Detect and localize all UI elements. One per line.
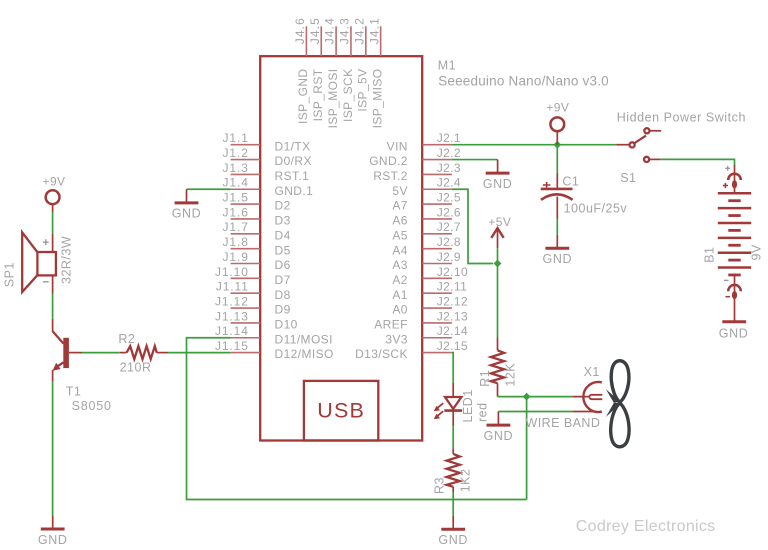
junction node R1/fan/D11 net bbox=[523, 393, 531, 401]
svg-text:C1: C1 bbox=[562, 175, 579, 189]
pin J1.6 (D3) bbox=[223, 205, 291, 227]
battery B1 9V bbox=[703, 165, 764, 321]
svg-text:J1.14: J1.14 bbox=[215, 324, 249, 338]
wire C1 to ground bbox=[556, 219, 558, 235]
svg-text:Hidden Power Switch: Hidden Power Switch bbox=[617, 111, 746, 125]
svg-text:RST.2: RST.2 bbox=[373, 169, 408, 183]
wire VIN J2.1 to switch S1 bbox=[452, 144, 616, 146]
svg-text:J2.3: J2.3 bbox=[437, 161, 461, 175]
svg-text:ISP_RST: ISP_RST bbox=[311, 68, 325, 121]
pin J4.2 (ISP_5V) bbox=[352, 17, 369, 111]
svg-text:+5V: +5V bbox=[488, 215, 511, 229]
svg-text:GND: GND bbox=[719, 326, 749, 340]
ground at GND.1 bbox=[186, 189, 188, 203]
pin J1.11 (D8) bbox=[216, 280, 291, 302]
junction node VIN/+9V/C1 bbox=[553, 141, 561, 149]
svg-text:ISP_GND: ISP_GND bbox=[296, 69, 310, 124]
pin J2.6 (A6) bbox=[392, 205, 461, 227]
svg-text:A6: A6 bbox=[392, 214, 407, 228]
svg-text:J2.8: J2.8 bbox=[437, 235, 461, 249]
IC M1 Seeeduino Nano/Nano v3.0 body bbox=[260, 56, 422, 440]
svg-text:32R/3W: 32R/3W bbox=[59, 236, 73, 284]
pin J1.7 (D4) bbox=[223, 220, 291, 242]
wire pin J1.4 GND.1 to ground bbox=[187, 188, 231, 190]
svg-text:B1: B1 bbox=[703, 247, 717, 263]
pin J2.15 (D13/SCK) bbox=[355, 339, 468, 361]
svg-text:9V: 9V bbox=[750, 244, 764, 260]
ground below battery B1 bbox=[719, 322, 749, 341]
pin J1.12 (D9) bbox=[215, 294, 291, 316]
pin J2.7 (A5) bbox=[392, 220, 461, 242]
svg-text:D1/TX: D1/TX bbox=[275, 139, 311, 153]
USB connector box bbox=[304, 381, 378, 441]
resistor R1 12K bbox=[478, 337, 518, 396]
svg-text:J1.11: J1.11 bbox=[216, 280, 249, 294]
svg-text:J2.4: J2.4 bbox=[437, 176, 461, 190]
svg-text:X1: X1 bbox=[584, 365, 600, 379]
pin J4.5 (ISP_RST) bbox=[308, 17, 325, 121]
wire pin J2.2 GND.2 to ground bbox=[452, 159, 498, 161]
power +9V supply symbol (left) bbox=[43, 174, 66, 212]
svg-text:S1: S1 bbox=[620, 171, 636, 185]
svg-text:J1.8: J1.8 bbox=[223, 235, 249, 249]
svg-text:A1: A1 bbox=[392, 288, 407, 302]
svg-text:GND: GND bbox=[438, 533, 468, 547]
transistor T1 S8050 bbox=[52, 319, 111, 413]
pin J1.2 (D0/RX) bbox=[223, 146, 312, 168]
pin J2.9 (A3) bbox=[392, 250, 461, 272]
svg-text:GND: GND bbox=[172, 207, 202, 221]
power +5V supply symbol bbox=[488, 215, 511, 248]
pin J1.5 (D2) bbox=[223, 191, 291, 213]
wire T1 emitter to ground bbox=[52, 381, 54, 515]
svg-text:J1.5: J1.5 bbox=[223, 191, 249, 205]
svg-text:J4.2: J4.2 bbox=[352, 17, 366, 44]
pin J1.15 (D12/MISO) bbox=[215, 339, 334, 361]
pin J2.1 (VIN) bbox=[387, 131, 461, 153]
svg-text:Seeeduino Nano/Nano v3.0: Seeeduino Nano/Nano v3.0 bbox=[438, 73, 609, 88]
pin J2.3 (RST.2) bbox=[373, 161, 461, 183]
ground below C1 bbox=[556, 235, 558, 249]
svg-text:J1.9: J1.9 bbox=[223, 250, 249, 264]
pin J2.2 (GND.2) bbox=[369, 146, 461, 168]
svg-text:J4.4: J4.4 bbox=[323, 17, 337, 44]
svg-text:100uF/25v: 100uF/25v bbox=[564, 202, 628, 216]
svg-text:J1.7: J1.7 bbox=[223, 220, 249, 234]
svg-text:D2: D2 bbox=[275, 199, 291, 213]
svg-text:J1.13: J1.13 bbox=[215, 309, 249, 323]
wire LED1 to resistor R3 bbox=[452, 426, 454, 448]
pin J1.9 (D6) bbox=[223, 250, 291, 272]
svg-text:3V3: 3V3 bbox=[385, 332, 408, 346]
svg-text:D9: D9 bbox=[275, 303, 291, 317]
svg-text:D11/MOSI: D11/MOSI bbox=[275, 332, 333, 346]
pin J4.6 (ISP_GND) bbox=[293, 17, 310, 124]
pin J1.14 (D11/MOSI) bbox=[215, 324, 333, 346]
pin J2.10 (A2) bbox=[392, 265, 468, 287]
svg-text:M1: M1 bbox=[438, 59, 456, 73]
wire fan lower pin to ground bbox=[498, 411, 572, 413]
svg-text:ISP_MOSI: ISP_MOSI bbox=[326, 69, 340, 129]
svg-text:J2.9: J2.9 bbox=[437, 250, 461, 264]
pin J2.5 (A7) bbox=[392, 191, 461, 213]
svg-text:J2.6: J2.6 bbox=[437, 205, 461, 219]
svg-text:J4.3: J4.3 bbox=[338, 17, 352, 44]
svg-text:D13/SCK: D13/SCK bbox=[355, 347, 408, 361]
svg-text:+9V: +9V bbox=[546, 100, 569, 114]
wire pin J1.14 D11/MOSI down and right (net to fan node) bbox=[187, 338, 527, 500]
svg-text:1K2: 1K2 bbox=[458, 469, 472, 493]
svg-text:J2.1: J2.1 bbox=[437, 131, 461, 145]
svg-text:J1.4: J1.4 bbox=[223, 176, 249, 190]
svg-text:GND.1: GND.1 bbox=[275, 184, 314, 198]
pin J1.4 (GND.1) bbox=[223, 176, 314, 198]
pin J4.3 (ISP_SCK) bbox=[338, 17, 355, 122]
svg-text:ISP_5V: ISP_5V bbox=[356, 69, 370, 112]
ground at GND.2 bbox=[497, 160, 499, 174]
svg-text:J2.15: J2.15 bbox=[437, 339, 468, 353]
pin J1.13 (D10) bbox=[215, 309, 298, 331]
wire R3 to ground bbox=[452, 493, 454, 516]
svg-text:GND: GND bbox=[38, 533, 68, 547]
svg-text:D12/MISO: D12/MISO bbox=[275, 347, 334, 361]
svg-text:D5: D5 bbox=[275, 243, 291, 257]
svg-text:J2.5: J2.5 bbox=[437, 191, 461, 205]
svg-text:GND: GND bbox=[484, 429, 514, 443]
svg-text:WIRE BAND: WIRE BAND bbox=[526, 416, 601, 430]
svg-text:J1.2: J1.2 bbox=[223, 146, 249, 160]
svg-text:D3: D3 bbox=[275, 214, 291, 228]
ground below R3 bbox=[452, 516, 454, 530]
pin J1.8 (D5) bbox=[223, 235, 291, 257]
wire R1 to fan X1 upper pin bbox=[498, 396, 573, 398]
svg-text:J2.11: J2.11 bbox=[437, 280, 467, 294]
svg-text:Codrey Electronics: Codrey Electronics bbox=[576, 518, 716, 535]
pin J2.11 (A1) bbox=[392, 280, 467, 302]
svg-text:A7: A7 bbox=[392, 199, 407, 213]
svg-text:J4.5: J4.5 bbox=[308, 17, 322, 44]
wire +9V to speaker SP1 bbox=[52, 212, 54, 234]
pin J2.14 (3V3) bbox=[385, 324, 468, 346]
ground below T1 bbox=[52, 515, 54, 529]
svg-text:J1.12: J1.12 bbox=[215, 294, 249, 308]
connector X1 fan header bbox=[526, 365, 603, 430]
junction node +5V bbox=[494, 260, 502, 268]
switch S1 Hidden Power Switch bbox=[616, 111, 746, 185]
svg-text:A2: A2 bbox=[392, 273, 407, 287]
wire R2 to pin J1.15 D12/MISO bbox=[168, 352, 231, 354]
svg-text:D0/RX: D0/RX bbox=[275, 154, 312, 168]
svg-text:D4: D4 bbox=[275, 228, 291, 242]
svg-text:J4.1: J4.1 bbox=[367, 17, 381, 44]
svg-text:J4.6: J4.6 bbox=[293, 17, 307, 44]
svg-text:12K: 12K bbox=[504, 363, 518, 387]
power +9V supply symbol (right) bbox=[546, 100, 569, 144]
svg-text:VIN: VIN bbox=[387, 139, 408, 153]
svg-text:GND: GND bbox=[483, 177, 513, 191]
wire S1 to battery B1 bbox=[661, 159, 735, 165]
svg-text:J1.15: J1.15 bbox=[215, 339, 249, 353]
svg-text:R2: R2 bbox=[118, 332, 135, 346]
svg-text:GND: GND bbox=[543, 252, 573, 266]
speaker SP1 32R/3W bbox=[3, 232, 74, 293]
ground at fan bbox=[497, 412, 499, 426]
svg-text:AREF: AREF bbox=[374, 318, 408, 332]
svg-text:LED1: LED1 bbox=[461, 389, 475, 422]
svg-text:A0: A0 bbox=[392, 303, 407, 317]
wire junction down to bottom net bbox=[526, 397, 528, 500]
svg-text:5V: 5V bbox=[392, 184, 407, 198]
svg-text:J1.10: J1.10 bbox=[215, 265, 249, 279]
svg-text:D8: D8 bbox=[275, 288, 291, 302]
svg-text:R1: R1 bbox=[478, 370, 492, 387]
svg-text:J2.2: J2.2 bbox=[437, 146, 461, 160]
pin J2.8 (A4) bbox=[392, 235, 461, 257]
pin J4.4 (ISP_MOSI) bbox=[323, 17, 340, 128]
svg-text:J2.13: J2.13 bbox=[437, 309, 468, 323]
svg-text:D7: D7 bbox=[275, 273, 291, 287]
svg-text:SP1: SP1 bbox=[3, 262, 17, 287]
pin J1.1 (D1/TX) bbox=[223, 131, 311, 153]
pin J1.10 (D7) bbox=[215, 265, 291, 287]
wire pin J2.4 5V down to +5V node bbox=[452, 189, 493, 263]
pin J1.3 (RST.1) bbox=[223, 161, 310, 183]
svg-text:J2.12: J2.12 bbox=[437, 294, 468, 308]
wire speaker to T1 collector bbox=[52, 294, 54, 319]
resistor R2 210R bbox=[118, 332, 168, 374]
svg-text:+9V: +9V bbox=[43, 174, 66, 188]
svg-text:J2.10: J2.10 bbox=[437, 265, 468, 279]
svg-text:D10: D10 bbox=[275, 318, 298, 332]
svg-text:210R: 210R bbox=[120, 361, 152, 375]
svg-text:R3: R3 bbox=[432, 477, 446, 494]
svg-text:S8050: S8050 bbox=[72, 399, 112, 413]
svg-text:J1.6: J1.6 bbox=[223, 205, 249, 219]
svg-text:T1: T1 bbox=[66, 385, 82, 399]
svg-text:D6: D6 bbox=[275, 258, 291, 272]
svg-text:ISP_MISO: ISP_MISO bbox=[370, 69, 384, 129]
svg-text:J1.3: J1.3 bbox=[223, 161, 249, 175]
svg-text:J2.14: J2.14 bbox=[437, 324, 468, 338]
svg-text:ISP_SCK: ISP_SCK bbox=[341, 69, 355, 123]
svg-text:A3: A3 bbox=[392, 258, 407, 272]
svg-text:J1.1: J1.1 bbox=[223, 131, 249, 145]
wire T1 base to R2 bbox=[82, 352, 120, 354]
svg-text:USB: USB bbox=[317, 398, 365, 422]
resistor R3 1K2 bbox=[432, 448, 472, 494]
svg-text:A5: A5 bbox=[392, 228, 407, 242]
wire junction down to resistor R1 bbox=[497, 264, 499, 338]
capacitor C1 100uF/25v (polarized) bbox=[541, 173, 628, 219]
svg-text:RST.1: RST.1 bbox=[275, 169, 310, 183]
svg-text:J2.7: J2.7 bbox=[437, 220, 461, 234]
wire +5V arrow to junction bbox=[497, 248, 499, 263]
pin J2.4 (5V) bbox=[392, 176, 461, 198]
svg-text:red: red bbox=[475, 402, 489, 422]
pin J4.1 (ISP_MISO) bbox=[367, 17, 384, 128]
pin J2.12 (A0) bbox=[392, 294, 468, 316]
svg-text:GND.2: GND.2 bbox=[369, 154, 408, 168]
LED LED1 red bbox=[434, 383, 490, 427]
fan propeller blades bbox=[606, 361, 629, 447]
wire junction down to capacitor C1 bbox=[556, 145, 558, 173]
wire pin J2.15 D13/SCK to LED1 bbox=[452, 353, 453, 383]
pin J2.13 (AREF) bbox=[374, 309, 468, 331]
svg-text:A4: A4 bbox=[392, 243, 407, 257]
